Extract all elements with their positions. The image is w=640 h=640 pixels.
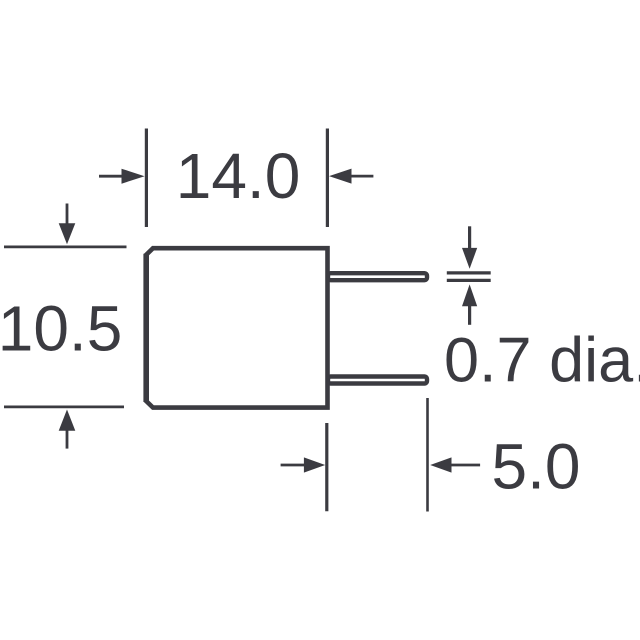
- dim 10.5 top arrow shaft: [66, 204, 69, 226]
- dim 14.0 right arrowhead: [329, 169, 352, 184]
- dim 0.7 up arrowhead: [462, 284, 477, 306]
- dim 14.0 right extension line: [326, 129, 329, 228]
- svg-text:5.0: 5.0: [492, 431, 581, 503]
- dim 0.7 down arrowhead: [462, 248, 477, 269]
- body left edge overdraw: [143, 254, 149, 402]
- dim 5.0 right arrowhead: [430, 457, 451, 472]
- svg-text:10.5: 10.5: [0, 293, 122, 365]
- dim 14.0 left extension line: [145, 129, 148, 228]
- dim 0.7 line upper: [447, 271, 491, 274]
- dim 10.5 bottom arrowhead: [59, 410, 76, 431]
- lead top: [328, 273, 427, 280]
- dim 10.5 top extension line: [4, 245, 127, 248]
- dim 5.0 right arrow shaft: [451, 464, 480, 467]
- dim 14.0 left arrowhead: [122, 169, 145, 184]
- dim 5.0 left extension line: [325, 423, 328, 511]
- svg-text:0.7 dia.: 0.7 dia.: [444, 326, 640, 396]
- dim 0.7 up arrow shaft: [468, 305, 471, 325]
- lead bottom: [328, 377, 427, 384]
- dim 10.5 top arrowhead: [59, 223, 76, 244]
- body outline: [146, 248, 327, 407]
- svg-text:14.0: 14.0: [176, 140, 301, 212]
- dim 14.0 left arrow shaft: [99, 175, 124, 178]
- dim 5.0 right extension line: [426, 398, 429, 512]
- dim 10.5 bottom extension line: [4, 405, 124, 408]
- dim 14.0 right arrow shaft: [350, 175, 373, 178]
- dim 5.0 left arrow shaft: [281, 464, 305, 467]
- dim 0.7 down arrow shaft: [468, 226, 471, 249]
- dim 5.0 left arrowhead: [304, 457, 325, 472]
- dim 10.5 bottom arrow shaft: [66, 430, 69, 449]
- dim 0.7 line lower: [447, 279, 491, 282]
